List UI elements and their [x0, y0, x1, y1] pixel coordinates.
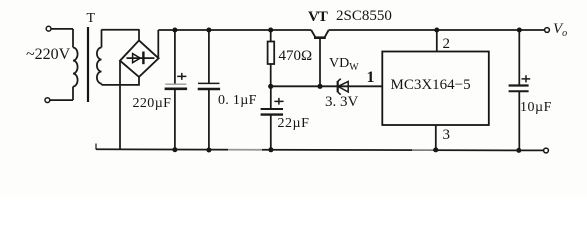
label ~220V: [26, 46, 70, 64]
node bottom rail C1: [172, 147, 177, 152]
capacitor C1 220uF: [165, 30, 188, 150]
capacitor C3 22uF: [261, 86, 284, 150]
wire zener branch: [271, 85, 383, 87]
node top rail C1: [172, 28, 177, 33]
resistor R1 470ohm: [268, 30, 275, 86]
node top rail pin2: [434, 28, 439, 33]
label pin 1: [367, 69, 375, 87]
capacitor C2 0.1uF: [198, 30, 220, 150]
zener diode VDW: [338, 79, 349, 95]
terminal Vo output: [545, 28, 550, 33]
transformer T core: [87, 27, 89, 102]
wire bottom rail: [96, 144, 544, 151]
wire bottom rail faded overlay: [228, 148, 433, 151]
node bottom rail C2: [206, 148, 211, 153]
label pin 2: [443, 36, 451, 53]
capacitor C4 10uF: [509, 30, 531, 150]
label 2SC8550: [336, 8, 392, 25]
node bottom rail C4: [516, 148, 521, 153]
transistor VT 2SC8550: [311, 30, 329, 86]
bridge rectifier: [120, 40, 159, 77]
wire top rail right: [329, 29, 545, 31]
label 470ohm: [279, 48, 313, 65]
label T: [87, 11, 96, 27]
node base junction: [317, 84, 322, 89]
node bottom rail pin3: [433, 147, 438, 152]
wire input top: [51, 28, 73, 30]
bridge diode symbol: [127, 52, 155, 65]
node R1 bottom junction: [268, 84, 273, 89]
wire secondary bottom to bridge: [102, 77, 140, 85]
transformer T primary winding: [73, 29, 78, 100]
node top rail R1: [268, 28, 273, 33]
wire pin 2: [436, 30, 438, 52]
label 0.1uF: [218, 93, 257, 109]
wire secondary top to bridge: [102, 29, 140, 40]
terminal J1 top input: [46, 26, 51, 31]
node top rail C4: [517, 28, 522, 33]
wire bridge positive riser: [157, 30, 159, 58]
wire pin 3: [435, 125, 437, 150]
wire top rail left: [158, 29, 311, 31]
IC U1 MC3X164-5: [382, 52, 489, 126]
label MC3X164-5: [391, 77, 471, 94]
node top rail C2: [206, 28, 211, 33]
transformer T secondary winding: [97, 30, 102, 85]
label VDW: [329, 56, 359, 73]
label pin 3: [443, 127, 451, 144]
label 10uF: [520, 100, 552, 116]
label 3.3V: [325, 94, 358, 111]
label 22uF: [278, 116, 310, 132]
terminal output bottom: [544, 148, 549, 153]
label VT: [308, 9, 327, 26]
terminal J1 bottom input: [45, 98, 50, 103]
label 220uF: [133, 96, 172, 112]
wire input bottom: [50, 99, 73, 101]
wire bridge negative down: [119, 61, 121, 150]
label Vo: [553, 21, 567, 39]
node bottom rail C3: [268, 147, 273, 152]
